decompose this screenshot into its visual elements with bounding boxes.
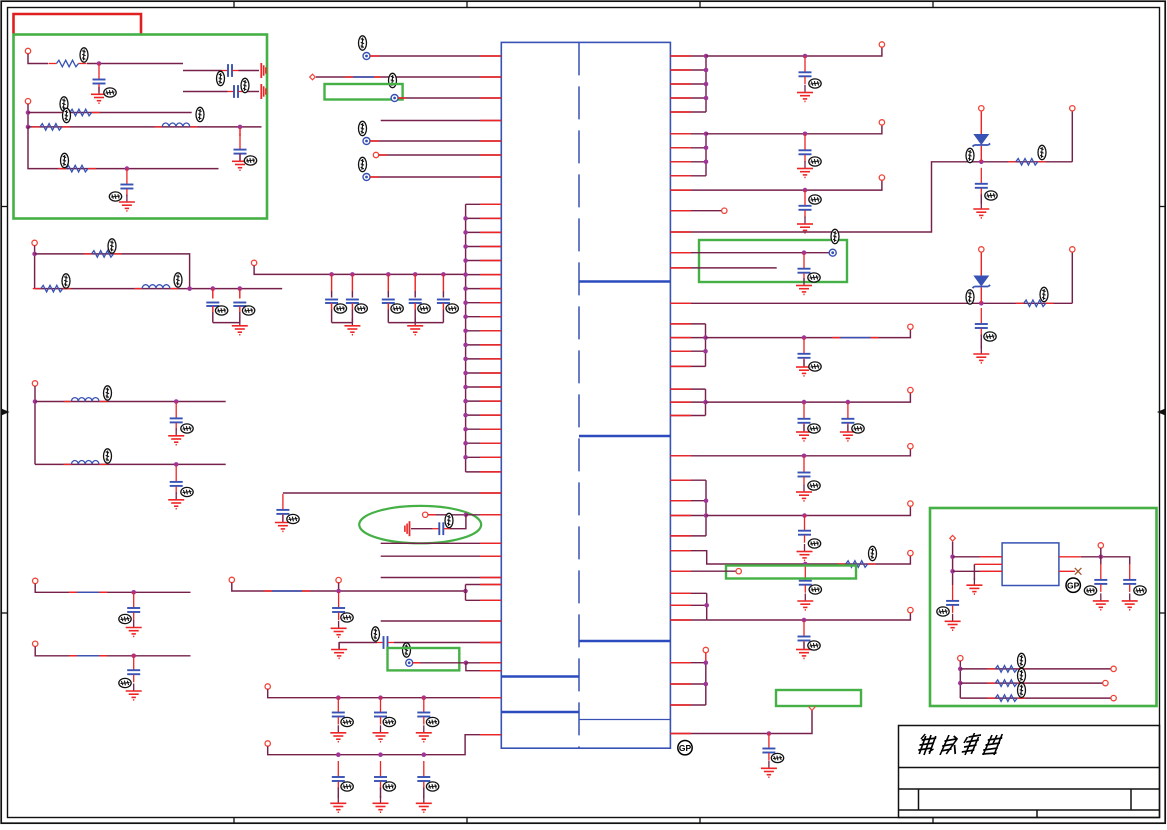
cap C8 lead [331, 274, 333, 291]
inductor L3 [64, 398, 107, 402]
pin stub left y=600.3 [480, 599, 501, 601]
label C3 [241, 78, 249, 92]
pin stub left y=621 [480, 620, 501, 622]
capacitor C40 [762, 733, 775, 761]
label net N8 [403, 643, 411, 657]
cap C8 lead low [331, 303, 333, 310]
pin stub left y=697.7 [480, 697, 501, 699]
label C27 [809, 79, 821, 88]
pin stub right y=70 [670, 69, 691, 71]
label C37 [808, 539, 820, 548]
wire U1 to D2 [670, 302, 1072, 304]
inductor L2 [134, 285, 177, 289]
wire P7 right [413, 662, 466, 664]
wire P7 branch dn [466, 663, 501, 671]
terminal J8 [423, 512, 428, 517]
ground C24 [330, 796, 346, 812]
terminal R12 end [1111, 695, 1116, 700]
junction C26 tap [422, 752, 427, 757]
pin stub left y=288.6 [480, 288, 501, 290]
net segment blue row10 [77, 655, 99, 657]
op-chip U1 main IC body [501, 42, 670, 748]
wire PWR down [952, 542, 954, 585]
green group box C [699, 240, 847, 282]
U1 section line right y=641 [579, 640, 670, 643]
border zone tick bottom x=234 [233, 818, 235, 824]
wire bus pin y=429.2 [466, 428, 502, 430]
terminal D2 top [979, 247, 984, 252]
wire row6 [35, 288, 283, 290]
label C13 [181, 424, 193, 433]
pin stub left y=642.5 [480, 642, 501, 644]
wire C10C12 gnd join [388, 322, 443, 324]
diode D1 zener [973, 135, 991, 147]
label C41 [937, 607, 949, 616]
cap C7 lead [239, 289, 241, 299]
label R9 [869, 546, 877, 560]
wire N8 [339, 642, 377, 644]
label C2 [217, 71, 225, 85]
terminal R7 top [1070, 106, 1075, 111]
pin stub right y=147.8 [670, 147, 691, 149]
ground C10C12 [407, 318, 423, 334]
wire row8 [35, 463, 226, 465]
junction V11 cap [767, 731, 772, 736]
label R10 [1018, 653, 1026, 667]
wire net dead y=543.3 [381, 542, 502, 544]
junction out [1099, 555, 1104, 560]
wire C6C7 gnd join [213, 322, 240, 324]
capacitor C31 [975, 308, 988, 336]
net segment red row10a [69, 655, 77, 657]
wire U2 out [1081, 557, 1130, 565]
pin stub left y=670.7 [480, 670, 501, 672]
wire row12 [268, 735, 502, 755]
junction C6 tap [211, 286, 216, 291]
terminal P7 [406, 659, 413, 666]
wire g3 pin y=337.6 [670, 337, 705, 339]
label C1 [104, 88, 116, 97]
capacitor C28 [799, 134, 812, 162]
wire bus pin y=260.5 [466, 260, 502, 262]
terminal J10 [336, 577, 341, 582]
pin stub left y=204.3 [480, 203, 501, 205]
wire g4 pin y=389.1 [670, 388, 705, 390]
terminal PWR diamond [950, 535, 956, 541]
bus right g2 [705, 134, 707, 176]
junction C11 tap [413, 272, 418, 277]
junction C13 tap [174, 399, 179, 404]
ground C38 [797, 594, 813, 610]
label C42 [1084, 586, 1096, 595]
cap C30 tail [980, 194, 982, 203]
junction bus y=330.8 [463, 329, 468, 334]
label C23 [426, 717, 438, 726]
lead D2 cathode [980, 288, 982, 304]
shield symbol E2 [261, 84, 266, 99]
terminal V4 [722, 208, 727, 213]
pin stub left y=316.7 [480, 316, 501, 318]
capacitor C42 [1094, 564, 1107, 592]
pin stub right y=303.3 [670, 302, 691, 304]
terminal J14 [703, 647, 708, 652]
capacitor C25 [374, 761, 387, 789]
green group box D [726, 566, 856, 579]
ground C41 [945, 614, 961, 630]
inductor L1 [154, 123, 197, 127]
wire row R11 [960, 682, 1102, 684]
pin stub left y=77 [480, 76, 501, 78]
wire g3 pin y=323.9 [670, 323, 705, 325]
pin stub right y=190.1 [670, 189, 691, 191]
U1 section line right y=436 [579, 435, 670, 438]
pin stub left y=662.8 [480, 662, 501, 664]
resistor R6 [33, 285, 71, 292]
junction g3 a [703, 335, 708, 340]
pin stub left y=330.8 [480, 330, 501, 332]
pin stub right y=366.4 [670, 365, 691, 367]
junction N7 branch [463, 589, 468, 594]
regulator U2 body [1002, 543, 1059, 586]
wire row7 [35, 401, 226, 403]
pin stub left y=274.6 [480, 274, 501, 276]
wire net X2 [183, 91, 228, 93]
terminal P6 [363, 174, 370, 181]
wire row2 [28, 112, 192, 114]
bus right g4 [705, 389, 707, 415]
border zone tick left y=206.5 [1, 206, 7, 208]
wire g7 pin y=684 [670, 683, 705, 685]
stub P7 [413, 662, 420, 664]
pin stub right y=662.7 [670, 662, 691, 664]
cap C10 lead [387, 274, 389, 291]
bus left vertical [465, 204, 467, 472]
pin stub left y=415.1 [480, 414, 501, 416]
wire g4 pin y=415.5 [670, 415, 705, 417]
stub U2 out [1059, 556, 1081, 558]
junction g5 a [704, 498, 709, 503]
pin stub left y=387.0 [480, 386, 501, 388]
label R5 [108, 239, 116, 253]
ground C19 [331, 621, 347, 637]
label C4 [244, 156, 256, 165]
junction RN1 [958, 667, 963, 672]
wire J4 down [254, 266, 466, 275]
label R4 [61, 153, 69, 167]
ground C8C9 [344, 318, 360, 334]
junction bus y=358.9 [463, 357, 468, 362]
pin stub right y=733.5 [670, 733, 691, 735]
junction row2 [26, 110, 31, 115]
ground C36 [796, 485, 812, 501]
terminal V8 [908, 501, 913, 506]
label C15 [119, 614, 131, 623]
junction g7 y=662.7 [704, 660, 709, 665]
junction C25 tap [378, 752, 383, 757]
ground C34 [796, 425, 812, 441]
ground C39 [796, 642, 812, 658]
wire J3 down [34, 246, 36, 289]
pin stub right y=480.2 [670, 479, 691, 481]
label C31 [984, 332, 996, 341]
pin stub right y=161.8 [670, 161, 691, 163]
pin stub left y=443.2 [480, 442, 501, 444]
pin stub right y=252.7 [670, 252, 691, 254]
junction P8 cap [802, 250, 807, 255]
wire bus pin y=415.1 [466, 414, 502, 416]
pin stub left y=734.7 [480, 734, 501, 736]
capacitor C39 [798, 621, 811, 649]
cap C6 tail [212, 312, 214, 323]
pin stub right y=84 [670, 83, 691, 85]
wire row R10 [960, 668, 1111, 670]
border zone tick bottom x=700 [699, 818, 701, 824]
junction V5 cap [802, 335, 807, 340]
pin stub right y=337.6 [670, 337, 691, 339]
label C18 [445, 513, 453, 527]
U1 section line left y=712 [501, 711, 579, 714]
wire C3 to shield [245, 91, 260, 93]
terminal J11 [265, 684, 270, 689]
capacitor C6 [206, 303, 219, 307]
wire row11 [268, 689, 502, 698]
ground C27 [797, 85, 813, 101]
pin stub left y=429.2 [480, 428, 501, 430]
label C19 [341, 613, 353, 622]
label C38 [809, 585, 821, 594]
pin stub right y=133.8 [670, 133, 691, 135]
junction D2 node [979, 301, 984, 306]
net red seg V5a [832, 337, 840, 339]
pin stub right y=605.3 [670, 604, 691, 606]
terminal J5 [32, 381, 37, 386]
label P2 net [389, 73, 397, 87]
wire VOUT drop [1100, 548, 1102, 557]
pin stub left y=401.1 [480, 400, 501, 402]
label GP2 [1066, 578, 1080, 592]
branch vertical N7 [465, 585, 467, 601]
green group box E [776, 690, 861, 706]
junction g4 a [703, 400, 708, 405]
wire g5 pin y=515.5 [670, 515, 706, 517]
terminal V3 [879, 175, 884, 180]
wire g3 pin y=366.4 [670, 365, 705, 367]
wire U1 to P8 [670, 252, 829, 254]
wire net V10 [707, 613, 911, 620]
wire g6 pin y=605.3 [670, 604, 706, 606]
junction bus y=387.0 [463, 385, 468, 390]
border zone tick bottom x=933 [932, 818, 934, 824]
pin stub right y=500.7 [670, 500, 691, 502]
pin stub left y=218.4 [480, 217, 501, 219]
label C9 [355, 304, 367, 313]
wire g2 pin y=161.8 [670, 161, 706, 163]
pin stub left y=302.7 [480, 302, 501, 304]
wire pin2 drop [973, 564, 975, 580]
wire L1 node to C4 [239, 128, 241, 136]
junction J3 node [32, 252, 37, 257]
pin stub right y=571.2 [670, 570, 691, 572]
label C24 [341, 782, 353, 791]
lead D1 cathode [980, 146, 982, 162]
capacitor C29 [799, 190, 812, 218]
wire U1 to J13 [670, 570, 736, 572]
capacitor C20 series [377, 636, 394, 649]
junction bus y=218.4 [463, 216, 468, 221]
pin stub left y=120.5 [480, 120, 501, 122]
bus right g1 [705, 56, 707, 112]
no-connect X [1075, 568, 1082, 575]
pin stub right y=112 [670, 111, 691, 113]
junction bus y=401.1 [463, 399, 468, 404]
cap C10 tail [387, 310, 389, 323]
wire bus corner pin [466, 471, 502, 473]
pin stub right y=56 [670, 55, 691, 57]
cap C10 lead low [387, 303, 389, 310]
junction bus y=443.2 [463, 441, 468, 446]
wire pin 210.7 [670, 210, 721, 212]
green group box B [325, 84, 403, 100]
capacitor C41 [946, 585, 959, 613]
capacitor C30 [975, 168, 988, 196]
capacitor C22 [374, 697, 387, 725]
label C28 [809, 157, 821, 166]
wire P3 to U1 [398, 97, 501, 99]
junction g2 y=133.8 [704, 132, 709, 137]
ground U2 pin2 [966, 578, 982, 594]
stub P5 [379, 154, 387, 156]
junction RN2 [958, 681, 963, 686]
cap C12 lead low [442, 303, 444, 310]
terminal P5 [373, 152, 378, 157]
pin stub left y=344.9 [480, 344, 501, 346]
junction row3 cap [238, 125, 243, 130]
junction bus y=288.6 [463, 286, 468, 291]
label C26 [426, 782, 438, 791]
label C22 [383, 717, 395, 726]
cap C26 tail [423, 788, 425, 799]
pin stub right y=684 [670, 683, 691, 685]
wire net V3 [670, 180, 882, 190]
junction g1 y=56 [704, 54, 709, 59]
label D2 [966, 290, 974, 304]
label C20 [372, 627, 380, 641]
border zone tick top x=933 [932, 1, 934, 7]
wire g1 pin y=56 [670, 55, 706, 57]
pin stub left y=556.2 [480, 555, 501, 557]
junction N7 cap [336, 589, 341, 594]
terminal J9 [229, 577, 234, 582]
label C40 [771, 753, 783, 762]
junction C15 tap [131, 590, 136, 595]
pin stub left y=471.9 [480, 471, 501, 473]
border zone tick left y=613 [1, 612, 7, 614]
label P4 [359, 121, 367, 135]
label L4 [104, 449, 112, 463]
wire net V8 [706, 506, 910, 515]
ground C43 [1122, 593, 1138, 609]
cap C11 lead2 [414, 291, 416, 298]
pin stub right y=593.3 [670, 592, 691, 594]
pin stub left y=373.0 [480, 372, 501, 374]
capacitor C7 [233, 303, 246, 307]
stub P3 [398, 97, 406, 99]
label C10 [391, 304, 403, 313]
resistor R1 [49, 60, 87, 67]
pin stub right y=351.2 [670, 350, 691, 352]
ground N8 [331, 642, 347, 658]
pin stub right y=402.1 [670, 401, 691, 403]
border zone tick bottom x=467 [466, 818, 468, 824]
wire U2 pin1 [953, 556, 1003, 558]
terminal V1 [879, 42, 884, 47]
stub J8 [428, 514, 436, 516]
capacitor C21 [332, 697, 345, 725]
capacitor C32 [798, 253, 811, 281]
terminal V2 [879, 120, 884, 125]
junction C24 tap [336, 752, 341, 757]
pin stub left y=246.5 [480, 246, 501, 248]
label R3 [63, 108, 71, 122]
cap C11 lead low [414, 303, 416, 310]
resistor R5 [84, 251, 122, 258]
terminal J13 [736, 569, 741, 574]
pin stub right y=515.5 [670, 515, 691, 517]
net segment red row10c [99, 655, 107, 657]
label C34 [808, 424, 820, 433]
resistor R9 [838, 561, 876, 568]
resistor R4 [58, 165, 96, 172]
pin stub right y=210.7 [670, 210, 691, 212]
capacitor C16 [127, 654, 140, 682]
wire bus pin y=288.6 [466, 288, 502, 290]
wire g5 pin y=500.7 [670, 500, 706, 502]
wire g6 pin y=620 [670, 619, 706, 621]
lead D1 anode [980, 111, 982, 134]
capacitor C10 [382, 300, 395, 304]
wire P2 to U1 [316, 76, 501, 78]
wire J8 right [428, 514, 466, 516]
label R7 [1038, 145, 1046, 159]
terminal V6 [908, 387, 913, 392]
junction row4 cap [125, 166, 130, 171]
junction V6 cap1 [802, 400, 807, 405]
junction row7 [33, 399, 38, 404]
cap C7 lead low [239, 306, 241, 312]
label L2 [174, 273, 182, 287]
label L3 [104, 386, 112, 400]
junction g6 a [704, 603, 709, 608]
label C16 [119, 678, 131, 687]
ground C28 [797, 161, 813, 177]
cap C8 lead2 [331, 291, 333, 298]
junction C8 tap [329, 272, 334, 277]
terminal P4 [363, 138, 370, 145]
label C11 [418, 304, 430, 313]
wire net V2 [706, 125, 882, 134]
border center arrow left [2, 409, 10, 416]
junction V2 cap [803, 132, 808, 137]
lead J14 [705, 653, 707, 663]
pin stub left y=584.5 [480, 584, 501, 586]
capacitor C35 [841, 403, 854, 431]
pin stub left y=514.8 [480, 514, 501, 516]
wire g7 pin y=705 [670, 704, 705, 706]
junction bus y=344.9 [463, 343, 468, 348]
wire bus pin y=302.7 [466, 302, 502, 304]
pin stub left y=141 [480, 140, 501, 142]
ground C22 [373, 725, 389, 741]
